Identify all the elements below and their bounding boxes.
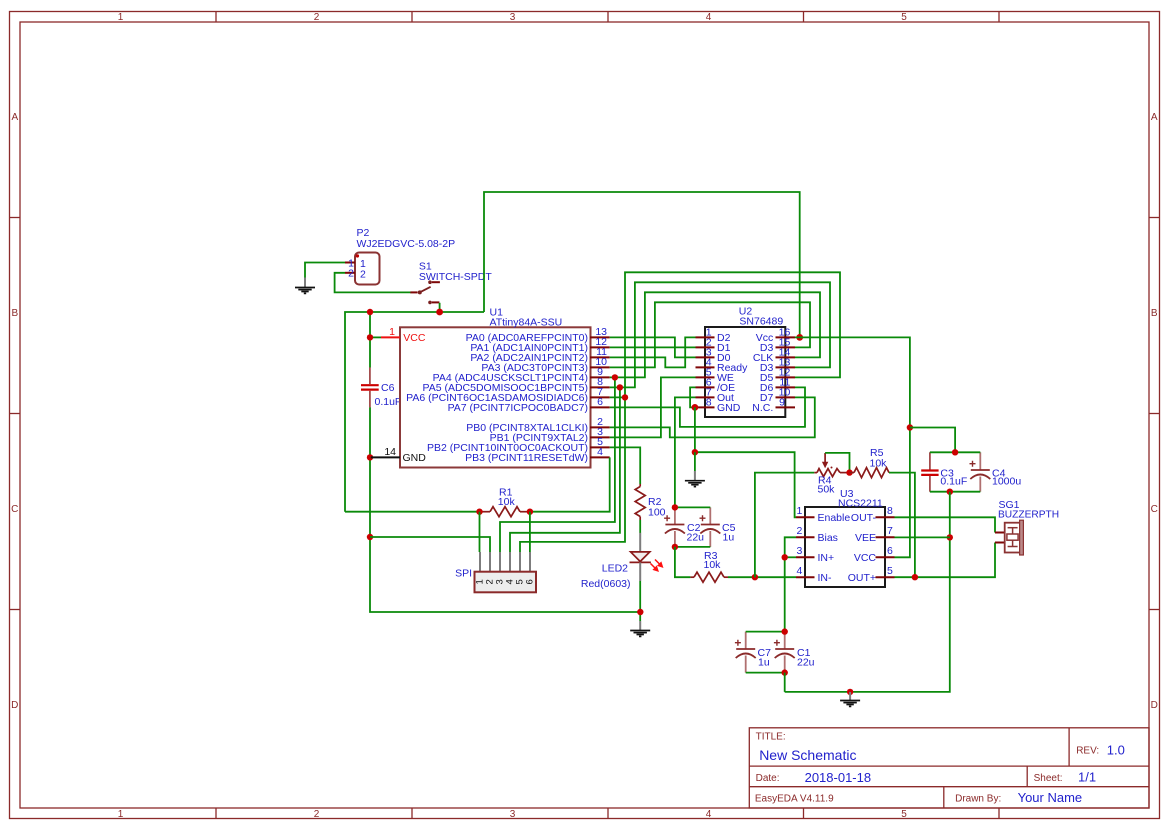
wire P2 pin2 to switch S1 <box>335 273 411 293</box>
wire SPI pin1 <box>479 512 481 552</box>
capacitor C7 <box>735 632 756 673</box>
junction dot PA5 <box>617 384 623 390</box>
wire C2 bottom to R3 <box>675 547 691 577</box>
svg-text:D: D <box>1151 700 1158 711</box>
svg-text:GND: GND <box>717 402 741 414</box>
svg-text:4: 4 <box>706 12 712 23</box>
wire PA1 to U2 D1 <box>610 346 696 348</box>
wire PA4 to U2 CLK <box>610 292 820 377</box>
svg-text:VEE: VEE <box>855 532 876 544</box>
svg-text:Drawn By:: Drawn By: <box>955 793 1001 804</box>
svg-text:OUT+: OUT+ <box>848 572 876 584</box>
border column numbers bottom <box>118 809 908 820</box>
U1 right pin numbers <box>595 326 607 458</box>
junction dot PA6 <box>622 394 628 400</box>
junction dot PA4 <box>612 374 618 380</box>
U3 right pins <box>876 517 895 577</box>
wire C3 C4 bottom rail <box>930 491 980 493</box>
svg-text:PB3 (PCINT11RESETdW): PB3 (PCINT11RESETdW) <box>465 452 588 464</box>
svg-text:VCC: VCC <box>854 552 877 564</box>
svg-text:C6: C6 <box>381 382 395 394</box>
junction dot C3C4 top <box>952 449 958 455</box>
svg-text:1: 1 <box>797 505 803 517</box>
svg-text:1: 1 <box>118 809 124 820</box>
junction dot LED ground rail <box>637 609 643 615</box>
buzzer SG1 <box>995 520 1023 555</box>
junction dot C1 top <box>782 628 788 634</box>
junction dot U2 Vcc <box>796 334 803 341</box>
connector SPI header <box>475 552 537 592</box>
junction dot SPI pin2 net <box>367 534 373 540</box>
IC U2 SN76489 <box>705 327 785 417</box>
wire ground node to U3 Enable <box>695 452 796 517</box>
wire S1 throw to VCC rail <box>439 303 441 312</box>
junction dot U2 GND pin <box>692 404 699 411</box>
svg-text:5: 5 <box>887 565 893 577</box>
wire PA5 branch to SPI pin4 <box>510 387 620 552</box>
capacitor C2 <box>664 507 685 547</box>
svg-text:1u: 1u <box>723 532 735 544</box>
junction dot OUT+ <box>912 574 918 580</box>
svg-text:5: 5 <box>901 12 907 23</box>
wire PB0 to U2 D7 <box>610 397 815 437</box>
wire R5 right to OUT+ <box>889 473 915 578</box>
svg-text:N.C.: N.C. <box>752 402 773 414</box>
wire U3 OUT- to SG1 <box>895 517 996 532</box>
svg-text:Bias: Bias <box>818 532 838 544</box>
junction dot U1 pin14 <box>367 454 373 460</box>
svg-text:8: 8 <box>706 396 712 408</box>
wire R2 to LED2 <box>639 520 641 533</box>
wire C3 C4 top rail <box>930 451 980 453</box>
svg-text:2: 2 <box>797 525 803 537</box>
svg-text:ATtiny84A-SSU: ATtiny84A-SSU <box>490 316 563 328</box>
junction dot bottom ground <box>847 689 853 695</box>
svg-text:Enable: Enable <box>818 512 851 524</box>
U3 right pin numbers <box>887 505 893 577</box>
wire PA3 to U2 D3b <box>610 302 810 367</box>
svg-text:GND: GND <box>403 452 427 464</box>
resistor R2 <box>635 484 645 520</box>
svg-text:1: 1 <box>118 12 124 23</box>
LED LED2 <box>630 533 663 581</box>
junction dot VCC rail x370 <box>367 309 373 315</box>
junction dot C2 bottom <box>672 544 678 550</box>
wire U2 Out to C2 top <box>675 397 696 507</box>
wire R4 wiper loop <box>825 453 849 473</box>
potentiometer R4 <box>814 453 849 477</box>
svg-text:OUT-: OUT- <box>851 512 877 524</box>
svg-text:50k: 50k <box>818 483 836 495</box>
svg-text:A: A <box>11 112 18 123</box>
connector P2 <box>345 253 380 285</box>
U3 pin names <box>818 512 851 584</box>
wire LED2 to ground <box>639 581 641 621</box>
svg-text:10k: 10k <box>704 559 722 571</box>
svg-text:10k: 10k <box>498 496 516 508</box>
wire VCC branch to C3 C4 <box>910 428 955 453</box>
U1 right pins <box>590 337 610 457</box>
svg-text:New Schematic: New Schematic <box>759 747 856 763</box>
svg-text:IN+: IN+ <box>818 552 835 564</box>
wire VCC rail to U2 vcc feed <box>484 192 800 337</box>
U2 left pins <box>696 337 715 407</box>
svg-text:2: 2 <box>360 268 366 280</box>
svg-text:D: D <box>11 700 18 711</box>
border column numbers top <box>118 12 908 23</box>
svg-text:2: 2 <box>314 12 320 23</box>
junction dot R1 left <box>476 509 482 515</box>
resistor R3 <box>690 572 728 582</box>
wire C1 bottom to bottom rail <box>784 673 786 692</box>
IC U1 ATtiny84A-SSU <box>400 327 591 467</box>
wire VCC branch to U1 pin1 and C6 <box>369 312 371 368</box>
svg-text:REV:: REV: <box>1076 746 1099 757</box>
U3 left pins <box>796 517 815 577</box>
wire PB1 to U2 WE <box>610 377 696 437</box>
junction dot VCC feed C3C4 <box>907 424 913 430</box>
ground GND2 below LED2 <box>630 621 650 636</box>
svg-text:0.1uF: 0.1uF <box>940 476 967 488</box>
svg-text:14: 14 <box>384 446 396 458</box>
wire R3 to U3 IN- <box>728 576 796 578</box>
switch S1 <box>410 280 440 304</box>
wire U3 Bias to C7C1 top <box>785 537 796 631</box>
svg-text:Your Name: Your Name <box>1018 790 1083 805</box>
junction dot VCC rail x439.6 <box>436 309 443 316</box>
capacitor C3 <box>921 452 938 491</box>
title block <box>749 728 1149 808</box>
wire PA7 to U2 D6 <box>610 387 805 427</box>
svg-text:2: 2 <box>348 268 354 280</box>
svg-text:100: 100 <box>648 506 666 518</box>
U3 left pin numbers <box>797 505 803 577</box>
resistor R5 <box>850 468 890 478</box>
junction dot C3C4 bottom <box>947 489 953 495</box>
wire U2 /OE to GND net <box>690 387 695 407</box>
svg-text:C: C <box>1151 504 1158 515</box>
junction dot C2 top <box>672 504 678 510</box>
junction dot U1 pin1 <box>367 334 373 340</box>
wire C6 bottom to GND rail and LED node <box>370 407 640 612</box>
svg-text:2018-01-18: 2018-01-18 <box>805 770 872 785</box>
wire PA4 branch to SPI pin3 <box>500 377 615 552</box>
capacitor C6 <box>361 367 379 407</box>
svg-text:SWITCH-SPDT: SWITCH-SPDT <box>419 271 492 283</box>
U2 right pins <box>776 337 796 407</box>
svg-text:1.0: 1.0 <box>1107 743 1125 758</box>
junction dot C1 bottom <box>782 669 788 675</box>
wire U3 OUT+ to SG1 <box>895 543 996 578</box>
U2 pin names <box>717 332 748 414</box>
resistor R1 <box>480 507 530 517</box>
svg-text:C: C <box>11 504 18 515</box>
svg-text:TITLE:: TITLE: <box>756 731 786 742</box>
wire PA6 branch to SPI pin5 <box>520 397 625 552</box>
wire C7 C1 top rail <box>746 631 785 633</box>
svg-text:SN76489: SN76489 <box>739 315 783 327</box>
wire VCC rail <box>345 312 484 512</box>
wire PB2 to R2 <box>610 447 641 484</box>
ground GND4 bottom rail <box>840 692 860 707</box>
capacitor C4 <box>970 452 991 491</box>
svg-text:9: 9 <box>779 396 785 408</box>
svg-text:1000u: 1000u <box>992 476 1021 488</box>
wire stub ground node <box>694 452 696 471</box>
U1 pin names <box>406 332 588 464</box>
svg-text:22u: 22u <box>797 657 815 669</box>
wire C2 C5 top rail <box>675 506 710 508</box>
wire PA0 to U2 D0 <box>610 337 696 357</box>
U1 pin 1 VCC <box>381 326 426 344</box>
svg-text:1: 1 <box>389 326 395 338</box>
svg-text:3: 3 <box>510 809 516 820</box>
wire SPI pin6 <box>529 512 531 552</box>
svg-text:NCS2211: NCS2211 <box>838 497 883 509</box>
svg-text:1/1: 1/1 <box>1078 770 1096 785</box>
svg-text:8: 8 <box>887 505 893 517</box>
wire U3 IN+ stub <box>785 556 796 558</box>
wire U2 GND down to ground node <box>694 407 696 452</box>
svg-text:6: 6 <box>525 579 536 584</box>
wire SPI pin2 <box>370 537 490 552</box>
junction dot VEE net <box>947 534 953 540</box>
svg-text:6: 6 <box>597 396 603 408</box>
svg-text:PA7 (PCINT7ICPOC0BADC7): PA7 (PCINT7ICPOC0BADC7) <box>448 402 588 414</box>
wire P2 pin1 to ground <box>305 263 345 278</box>
junction dot IN+ <box>782 554 788 560</box>
wire PA6 to U2 D5 <box>610 272 840 397</box>
svg-text:EasyEDA V4.11.9: EasyEDA V4.11.9 <box>755 794 834 805</box>
junction dot GND node <box>692 449 698 455</box>
svg-text:B: B <box>11 308 18 319</box>
wire PA5 to U2 D3a <box>610 282 830 387</box>
wire U1 VCC stub <box>370 336 381 338</box>
ground GND3 near U2 <box>685 471 705 487</box>
title block texts <box>755 731 1125 805</box>
ground GND1 at P2 <box>295 278 315 294</box>
wire U2 Vcc to U3 VCC vertical <box>795 337 910 557</box>
svg-text:0.1uF: 0.1uF <box>375 396 402 408</box>
svg-text:Date:: Date: <box>756 773 780 784</box>
U2 left pin numbers <box>706 326 712 408</box>
wire R3 node up to R4 left <box>755 473 814 578</box>
wire U3 VEE to C3C4 bottom net <box>895 536 950 538</box>
junction dot R3 right <box>752 574 758 580</box>
svg-text:1u: 1u <box>758 657 770 669</box>
wire PB3 to R1 right <box>530 457 610 511</box>
svg-text:B: B <box>1151 308 1158 319</box>
svg-text:3: 3 <box>510 12 516 23</box>
svg-text:LED2: LED2 <box>602 563 628 575</box>
svg-text:6: 6 <box>887 545 893 557</box>
svg-text:5: 5 <box>901 809 907 820</box>
capacitor C5 <box>700 507 721 547</box>
svg-text:3: 3 <box>797 545 803 557</box>
junction dot R4 right <box>846 469 852 475</box>
svg-text:10k: 10k <box>870 458 888 470</box>
svg-text:A: A <box>1151 112 1158 123</box>
svg-text:Sheet:: Sheet: <box>1034 773 1063 784</box>
U1 pin 14 GND <box>371 446 426 464</box>
wire PA2 to U2 D2 <box>610 337 696 367</box>
svg-text:IN-: IN- <box>818 572 833 584</box>
wire R1 left feed <box>345 511 480 513</box>
svg-text:2: 2 <box>314 809 320 820</box>
svg-text:7: 7 <box>887 525 893 537</box>
wire C3C4 bottom down to bottom rail <box>785 492 950 692</box>
svg-text:4: 4 <box>597 446 603 458</box>
border row letters left <box>11 112 18 711</box>
junction dot R1 right <box>527 509 533 515</box>
svg-text:Red(0603): Red(0603) <box>581 578 631 590</box>
border row letters right <box>1151 112 1158 711</box>
wire C2 C5 bottom rail <box>675 546 710 548</box>
svg-text:WJ2EDGVC-5.08-2P: WJ2EDGVC-5.08-2P <box>357 238 456 250</box>
wire C7 C1 bottom rail <box>746 672 785 674</box>
svg-text:4: 4 <box>706 809 712 820</box>
IC U3 NCS2211 <box>805 507 885 587</box>
capacitor C1 <box>774 632 795 673</box>
svg-text:SPI: SPI <box>455 568 472 580</box>
svg-text:VCC: VCC <box>403 332 426 344</box>
svg-text:BUZZERPTH: BUZZERPTH <box>998 510 1059 521</box>
svg-text:4: 4 <box>797 565 803 577</box>
U2 right pin numbers <box>779 326 791 408</box>
